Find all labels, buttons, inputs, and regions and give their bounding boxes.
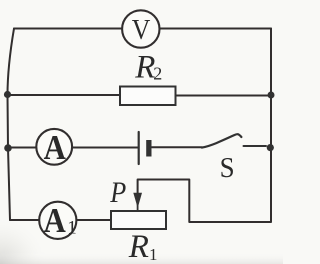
- svg-text:2: 2: [153, 64, 162, 84]
- svg-text:P: P: [109, 176, 126, 209]
- svg-text:1: 1: [67, 218, 77, 239]
- svg-text:V: V: [132, 14, 151, 46]
- svg-text:A: A: [44, 201, 67, 240]
- svg-text:1: 1: [149, 245, 158, 264]
- svg-text:R: R: [128, 229, 149, 264]
- svg-text:A: A: [44, 128, 67, 167]
- svg-text:S: S: [220, 152, 235, 184]
- svg-text:R: R: [134, 49, 155, 85]
